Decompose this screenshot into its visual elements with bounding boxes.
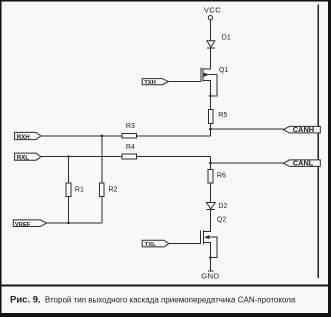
junction VREF/R1 — [67, 222, 70, 225]
junction RXL/R1 — [67, 155, 70, 158]
junction CANL node — [209, 162, 212, 165]
junction Q1 source/body — [209, 95, 212, 98]
svg-text:R3: R3 — [126, 123, 135, 130]
outer frame — [0, 0, 2, 317]
wire CANL node to R6 — [209, 163, 211, 170]
svg-text:TXL: TXL — [145, 242, 156, 248]
svg-text:R4: R4 — [126, 144, 135, 151]
diode D1 — [207, 41, 215, 48]
svg-text:Q2: Q2 — [217, 217, 226, 224]
Q1 drain stub — [203, 68, 211, 70]
svg-text:VREF: VREF — [15, 222, 31, 228]
transistor Q1 (P-channel MOSFET) — [201, 68, 217, 110]
resistor R2 — [99, 183, 104, 196]
terminal VCC circle — [208, 16, 212, 20]
svg-text:R2: R2 — [109, 187, 118, 194]
transistor Q2 (N-channel MOSFET) — [201, 230, 218, 271]
Q2 body lead — [209, 237, 217, 257]
Q2 drain stub — [204, 231, 211, 233]
wire TXL to Q2 gate — [169, 243, 201, 245]
junction RXH/R2 — [101, 135, 104, 138]
wire R1 top — [68, 157, 70, 184]
diode D2 — [206, 203, 215, 209]
wire CANL — [210, 162, 283, 164]
wire CANH — [210, 128, 283, 130]
wire VREF line — [47, 222, 102, 224]
wire R6 to D2 — [209, 183, 211, 202]
svg-text:Рис. 9. Второй тип выходного к: Рис. 9. Второй тип выходного каскада при… — [10, 294, 296, 305]
svg-text:RXH: RXH — [17, 134, 31, 141]
Q1 channel bar — [202, 68, 204, 82]
Q1 body arrow — [204, 73, 209, 77]
wire R1 bottom — [68, 197, 70, 223]
svg-text:Q1: Q1 — [219, 67, 228, 74]
svg-text:VCC: VCC — [204, 6, 221, 15]
Q1 gate bar — [200, 68, 202, 82]
resistor R3 — [122, 134, 136, 139]
port VREF — [13, 220, 46, 228]
resistor R1 — [66, 183, 71, 196]
Q1 source stub — [203, 81, 210, 110]
port CANL — [283, 159, 320, 168]
port TXH — [142, 79, 168, 86]
wire D2 to Q2 drain — [209, 210, 211, 232]
svg-text:TXH: TXH — [144, 80, 156, 86]
wire R5 to CANH node — [209, 124, 211, 130]
wire TXH to Q1 gate — [168, 80, 201, 82]
terminal GND bar — [208, 270, 213, 272]
wire VCC to D1 — [209, 20, 211, 41]
Q2 body arrow — [204, 235, 209, 239]
wire CANH node down to RXH line — [209, 129, 211, 136]
wire R2 top — [101, 136, 103, 183]
Q2 channel bar — [203, 230, 205, 244]
svg-text:CANL: CANL — [293, 159, 314, 168]
caption separator line — [2, 285, 329, 287]
svg-text:D1: D1 — [222, 34, 231, 41]
port TXL — [142, 240, 169, 248]
Q1 body lead — [209, 75, 217, 96]
svg-text:R6: R6 — [217, 173, 226, 180]
wire D1 to Q1 drain — [209, 48, 211, 69]
Q2 gate bar — [200, 231, 202, 244]
port RXL — [15, 153, 41, 162]
resistor R5 — [208, 110, 213, 124]
svg-text:R5: R5 — [218, 112, 227, 119]
wire RXH line — [41, 135, 211, 137]
junction Q2 source/body — [209, 256, 212, 259]
wire RXL to CANL node — [209, 157, 211, 164]
sheet border (right edge of schematic sheet) — [318, 5, 320, 279]
junction CANH node — [209, 128, 212, 131]
svg-text:RXL: RXL — [17, 155, 30, 162]
wire R2 bottom — [101, 197, 103, 223]
port CANH — [283, 125, 320, 134]
resistor R4 — [122, 154, 136, 159]
svg-text:CANH: CANH — [293, 125, 314, 134]
Q2 source stub — [204, 243, 211, 271]
port RXH — [15, 132, 41, 141]
resistor R6 — [208, 170, 213, 184]
svg-text:R1: R1 — [75, 187, 84, 194]
wire RXL line — [41, 156, 211, 158]
svg-text:GND: GND — [201, 271, 219, 280]
svg-text:D2: D2 — [218, 203, 227, 210]
